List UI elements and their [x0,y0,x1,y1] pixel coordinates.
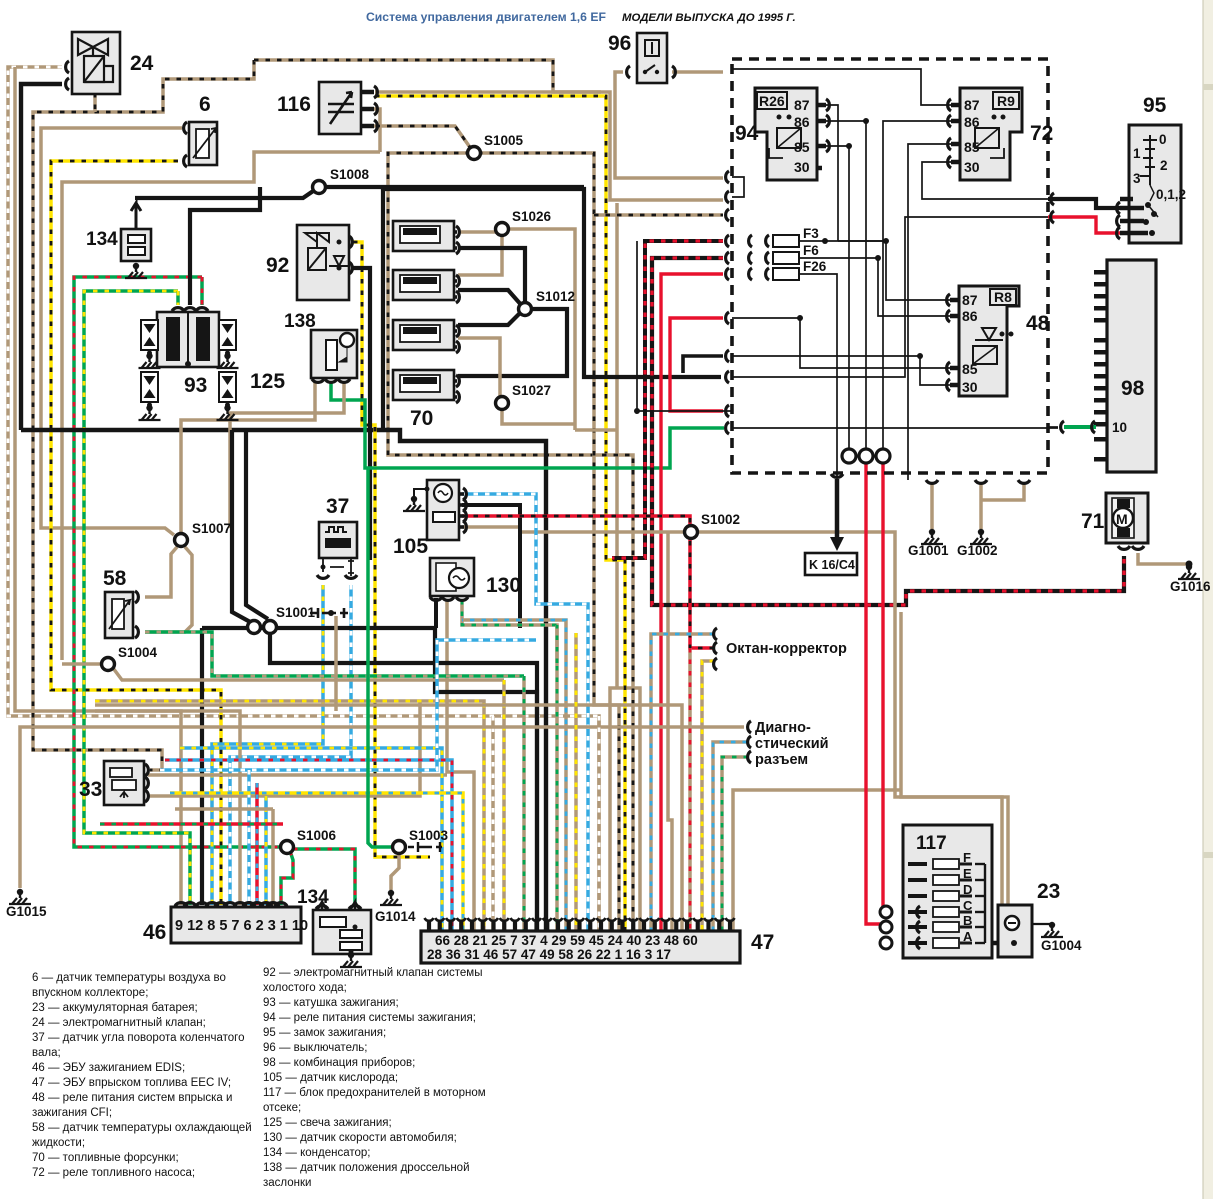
wire black to 46 [200,628,204,905]
svg-text:98: 98 [1121,377,1145,400]
svg-text:разъем: разъем [755,752,808,768]
node S1008 [313,181,326,194]
capacitor 134 bottom [313,910,371,954]
wire black to S1001a [232,430,252,623]
wire black inj2.2 [458,290,523,307]
wire brown 138.3 via x230 [230,382,344,528]
wire thin 48.30 [732,356,951,385]
svg-text:70 — топливные форсунки;: 70 — топливные форсунки; [32,1152,179,1164]
node S1004 [102,658,115,671]
spark plug 125c [141,372,158,402]
wire brown/blue diag2 [713,742,748,931]
svg-text:S1007: S1007 [192,521,231,536]
wire brown G1015 diag row727 [20,727,744,888]
injector 70.1 [393,221,454,251]
wire green branch to S1003 [368,468,392,847]
wire black to S1001b [246,430,268,619]
svg-text:66 28 21 25 7 3: 66 28 21 25 7 37 4 29 59 45 24 40 23 48 … [435,933,698,948]
wire blue/yellow 37.1 [212,585,323,905]
svg-text:87: 87 [794,97,810,113]
wire brown/yellow row701 484 [95,701,484,931]
wire black 117.A-23 [963,941,1012,945]
wire red/green row824 [100,822,283,826]
wire thin 94 loop [732,177,744,197]
wire brown/green 557 [462,600,557,931]
wire thin 94.85 [822,146,849,449]
relay 94 [755,88,817,180]
wire brown inj1 [458,230,496,234]
wire brown/black to pin215 [594,213,723,217]
sensor 33 [104,761,144,805]
wire brown/black 116.3 to S1005 [364,126,474,153]
svg-text:30: 30 [794,159,810,175]
wire black 24.2 down [21,84,62,430]
svg-text:92: 92 [266,254,289,277]
relay 72 [960,88,1022,180]
wire red to 95 [1048,217,1120,233]
svg-text:130: 130 [486,574,521,597]
instrument cluster 98 [1107,260,1156,472]
ground G1016 [1178,564,1200,579]
wire brown 116.2 stub [364,109,380,152]
wire brown/black S1005 down to 47 [478,153,619,931]
svg-text:130 — датчик скорости автомоби: 130 — датчик скорости автомобиля; [263,1132,457,1144]
wire brown/black top right [254,60,601,92]
svg-text:S1001: S1001 [276,605,316,620]
wire black inj1.2 [458,248,525,303]
wire brown/black S1005 row455 to 47 [388,153,633,931]
ground G1001 [921,529,943,544]
wire brown 6.1 to S1007 [41,128,182,535]
svg-text:зажигания CFI;: зажигания CFI; [32,1107,112,1119]
speed sensor 130 [430,558,474,596]
svg-text:86: 86 [962,308,978,324]
wire black main y430-441 to 47 [21,430,546,931]
capacitor 134 top [121,229,151,261]
junction circles [842,449,856,463]
svg-text:92 — электромагнитный клапан с: 92 — электромагнитный клапан системы [263,967,482,979]
svg-text:48 — реле питания систем впрыс: 48 — реле питания систем впрыска и [32,1092,232,1104]
wire brown branch 640 [617,688,640,931]
svg-text:R9: R9 [997,93,1015,109]
svg-text:2: 2 [1160,158,1168,173]
svg-text:138 — датчик положения дроссел: 138 — датчик положения дроссельной [263,1162,470,1174]
crank sensor 37 [319,522,357,558]
svg-text:G1004: G1004 [1041,938,1082,953]
svg-text:Диагно-: Диагно- [755,720,811,736]
svg-text:стический: стический [755,736,829,752]
svg-text:134 — конденсатор;: 134 — конденсатор; [263,1147,370,1159]
wire thin F6-48.86 [791,258,951,316]
svg-text:37 — датчик угла поворота коле: 37 — датчик угла поворота коленчатого [32,1032,244,1044]
wire yellow/black 6.2 to 46 [51,161,221,905]
wire brown to S1004 [62,662,102,666]
wire brown 617 down [615,203,619,688]
scrollbar strip [1203,0,1213,1199]
wire brown 130.2 to 47 [447,600,474,931]
svg-text:95: 95 [1143,94,1167,117]
wire brown G1002b [981,483,1024,500]
svg-text:F26: F26 [803,259,827,274]
svg-text:3: 3 [1133,171,1141,186]
wire thin 428-98.10 [732,427,1058,429]
wire red loop 48 [670,318,723,411]
svg-text:87: 87 [962,292,978,308]
wire brown 33.2 to 130.2 [148,773,447,777]
svg-text:93 — катушка зажигания;: 93 — катушка зажигания; [263,997,399,1009]
svg-text:58 — датчик температуры охлажд: 58 — датчик температуры охлаждающей [32,1122,252,1134]
svg-text:G1016: G1016 [1170,579,1211,594]
46 [171,907,301,943]
svg-text:33: 33 [79,778,102,801]
47 [421,931,740,963]
ground G1004 [1041,922,1063,937]
wire black 92.2 [353,268,370,560]
wire black shield bus [202,628,537,931]
wire thin 72.85-G1001 [908,144,957,480]
wire brown x15 row711 [15,67,181,905]
injector 70.4 [393,370,454,400]
svg-text:M: M [1116,511,1128,527]
wire thin 411 [637,241,732,411]
coil 93 [157,312,219,367]
svg-text:134: 134 [86,229,118,250]
wire brown/white branch 493 [491,716,495,931]
wire brown inj3.2 [458,338,500,397]
injector 70.3 [393,320,454,350]
wire brown/green 524 to 47 [522,676,526,931]
wire S1006 right to 134b [293,849,355,903]
wire thin 94.87 [822,105,838,241]
svg-text:48: 48 [1026,312,1050,335]
svg-text:117: 117 [916,833,947,854]
wire brown 682 row705 [470,705,682,931]
battery 23 [998,905,1032,957]
svg-text:S1006: S1006 [297,828,337,843]
wire brown 58.1 to S1007 [145,547,177,597]
wire brown G1001 [930,483,934,529]
svg-text:впускном коллекторе;: впускном коллекторе; [32,987,148,999]
svg-text:105 — датчик кислорода;: 105 — датчик кислорода; [263,1072,398,1084]
wire brown pair 2 [901,612,1008,905]
svg-text:138: 138 [284,311,316,332]
svg-text:Октан-корректор: Октан-корректор [726,641,847,657]
svg-text:93: 93 [184,374,207,397]
motor 71 [1106,493,1148,543]
wire brown inj supply join [575,428,617,432]
svg-text:23 — аккумуляторная батарея;: 23 — аккумуляторная батарея; [32,1002,198,1014]
wire black injector frame [383,189,721,430]
svg-text:96 — выключатель;: 96 — выключатель; [263,1042,367,1054]
fuse F26 [773,268,799,280]
junction dots [822,238,828,244]
svg-text:98 — комбинация приборов;: 98 — комбинация приборов; [263,1057,415,1069]
wire black/red F3 [612,241,723,558]
wire brown/yellow 576 [574,633,578,931]
wire blue/red row760 452 [165,760,452,931]
wire brown/black 24 bottom stub [93,93,97,112]
wire brown 33.3 [148,700,420,796]
wire thin 94.86 [822,121,866,449]
wire black K16 arrow [835,479,840,545]
wire black 130.1 [434,598,438,628]
wire blue/white to 46 [247,770,251,905]
svg-text:23: 23 [1037,880,1060,903]
svg-text:72 — реле топливного насоса;: 72 — реле топливного насоса; [32,1167,195,1179]
svg-text:46: 46 [143,921,166,944]
svg-text:94 — реле питания системы зажи: 94 — реле питания системы зажигания; [263,1012,476,1024]
svg-text:Система управления двигателем: Система управления двигателем 1,6 EF [366,10,606,24]
svg-text:R8: R8 [994,289,1012,305]
wire red/blue to 46 [255,783,259,905]
svg-text:S1008: S1008 [330,167,370,182]
node S1003 [393,841,406,854]
wire thin 48.85 [732,318,951,368]
wire brown/yellow 504 to 47 [502,680,506,931]
svg-text:58: 58 [103,567,127,590]
wire black S1008 [135,187,584,198]
svg-text:S1026: S1026 [512,209,552,224]
wire brown S1004 row680 [113,668,504,680]
wire brown row711b [95,711,240,905]
capacitor module 116 [319,82,361,134]
svg-text:116: 116 [277,93,311,116]
node S1007 [175,534,188,547]
wire brown/green diag3 [722,757,748,931]
dashed harness box [732,59,1048,473]
wire brown 96 left to pin177 [615,72,723,178]
svg-text:105: 105 [393,535,428,558]
wire brown/red 690 to 47 [688,648,692,931]
svg-text:S1027: S1027 [512,383,551,398]
svg-text:G1001: G1001 [908,543,949,558]
wire black S1001 right [270,632,537,931]
svg-text:жидкости;: жидкости; [32,1137,85,1149]
ground G1002 [970,529,992,544]
wire brown S1007 right leg [145,547,192,632]
svg-text:0: 0 [1159,132,1167,147]
svg-text:S1003: S1003 [409,828,449,843]
svg-text:125 — свеча зажигания;: 125 — свеча зажигания; [263,1117,392,1129]
injector 70.2 [393,270,454,300]
svg-text:37: 37 [326,495,349,518]
svg-text:S1012: S1012 [536,289,575,304]
117 [903,825,992,958]
air temp sensor 6 [189,122,217,165]
wire red to 117.B [866,462,886,924]
wire thin 377-95 [732,217,1048,377]
svg-text:1: 1 [1133,146,1141,161]
svg-text:30: 30 [962,379,978,395]
svg-text:72: 72 [1030,122,1053,145]
ground G1015 [9,889,31,904]
wire green/red to S1006 [74,277,283,847]
node S1012 [519,303,532,316]
svg-text:G1014: G1014 [375,909,416,924]
wire green/red S1006 down [281,851,293,905]
wire brown G1002 [979,483,983,529]
wire brown/blue 566 from 130.3 [462,620,566,931]
wire brown branch 610 [610,688,617,931]
svg-text:S1004: S1004 [118,645,158,660]
wire brown shield drain [334,616,338,711]
wire thin 96-72.87 [732,69,951,105]
svg-text:G1015: G1015 [6,904,47,919]
svg-text:24: 24 [130,52,154,75]
svg-text:холостого хода;: холостого хода; [263,982,347,994]
relay 48 [959,286,1019,396]
wire green/yellow coil [176,291,180,305]
wire brown 138.1 to S1007 [181,382,315,533]
wire green/yellow to 46 [84,291,190,905]
wire thin 72.86 [883,121,957,449]
svg-text:K 16/C4: K 16/C4 [809,558,855,572]
svg-text:30: 30 [964,159,980,175]
fuse F6 [773,252,799,264]
wire black S1012 inj4 [458,309,567,376]
svg-text:F6: F6 [803,243,819,258]
node S1026 [496,223,509,236]
svg-text:24 — электромагнитный клапан;: 24 — электромагнитный клапан; [32,1017,206,1029]
node S1005 [468,147,481,160]
svg-text:87: 87 [964,97,980,113]
wire black/red F6 fuel pump motor [652,258,1124,605]
wire brown/blue octane1 to 47 [651,634,714,931]
svg-text:G1002: G1002 [957,543,998,558]
o2 105 [427,480,459,540]
idle valve 92 [297,225,349,300]
wire red F26 to 47 [661,274,723,931]
spark plug 125d [219,372,236,402]
wire brown 105.4 S1002 battery [462,527,1002,905]
coolant sensor 58 [105,592,133,638]
wire brown 96 to harness [672,70,723,74]
svg-text:47: 47 [751,931,774,954]
solenoid valve 24 [72,32,120,94]
svg-text:28 36 31 46 57: 28 36 31 46 57 47 49 58 26 22 1 16 3 17 [427,947,671,962]
wire blue/white 37.2 [230,585,351,905]
wire black inj3.1 [458,311,522,325]
node S1027 [496,397,509,410]
wire 23-G1004 [1032,923,1052,925]
throttle sensor 138 [311,330,357,378]
wire brown 71-G1016 [1138,553,1189,564]
wire thin F26 down [791,274,837,477]
svg-text:71: 71 [1081,510,1105,533]
svg-text:отсеке;: отсеке; [263,1102,301,1114]
svg-text:117 — блок предохранителей в м: 117 — блок предохранителей в моторном [263,1087,486,1099]
wire green/brown 58.2 row676 [145,632,524,676]
node S1002 [685,526,698,539]
wire red/black 105.3 octane [462,516,714,648]
svg-text:94: 94 [735,122,759,145]
wire thin 72.30-95 [922,162,1048,199]
ground G1014 [380,890,402,905]
svg-text:S1002: S1002 [701,512,740,527]
svg-text:125: 125 [250,370,285,393]
wire brown S1003 to G1014 [391,853,399,890]
svg-text:0,1,2: 0,1,2 [1156,187,1186,202]
fuse F3 [773,235,799,247]
wire brown S1026 out [508,229,575,430]
wire thin F3-48.87 [791,241,951,300]
wire brown row705 [95,703,470,707]
svg-text:47 — ЭБУ впрыском топлива EEC: 47 — ЭБУ впрыском топлива EEC IV; [32,1077,231,1089]
ground 134 [125,263,147,278]
wire red to 117.C [883,462,886,909]
spark plug 125a [141,320,158,350]
wire brown S1027 out [502,409,575,424]
wire brown 47 to battery pair [733,790,901,931]
wire brown 668 branch to 47 [668,532,672,931]
svg-text:6: 6 [199,93,211,116]
wire brown 116.2 to S1004 [62,152,380,660]
svg-text:F3: F3 [803,226,819,241]
svg-text:96: 96 [608,32,631,55]
wire brown S1026 inj2 [458,236,502,275]
ignition switch 95 [1129,125,1181,243]
wire blue/white row770 [160,640,536,770]
wire black to 95 [1048,199,1120,208]
svg-text:заслонки: заслонки [263,1177,311,1189]
wire black 105.2 [462,505,520,628]
wire yellow/black 116.1b down [375,96,625,931]
wire green 138 to 98 pin10 [331,382,724,468]
svg-text:95 — замок зажигания;: 95 — замок зажигания; [263,1027,386,1039]
svg-text:вала;: вала; [32,1047,61,1059]
svg-text:10: 10 [1112,420,1127,435]
wire brown/white 599 branch [597,716,601,931]
switch 96 [637,33,667,83]
svg-text:9 12 8 5 7 6 2 3 1 10: 9 12 8 5 7 6 2 3 1 10 [175,918,308,934]
wire green/red coil [200,277,204,305]
wire brown 116.1 to pin197 [375,92,723,200]
wire yellow/blue row793 463 [170,793,463,931]
wire black pin 356 [683,356,723,373]
wire brown/yellow octane3 to 47 [702,661,714,931]
wire yellow/black 92.1 [353,242,430,857]
svg-text:R26: R26 [759,93,785,109]
svg-text:6 — датчик температуры воздуха: 6 — датчик температуры воздуха во [32,972,226,984]
svg-text:70: 70 [410,407,433,430]
svg-text:МОДЕЛИ ВЫПУСКА ДО 1995 Г.: МОДЕЛИ ВЫПУСКА ДО 1995 Г. [622,12,796,24]
wire black coil to S1008 [190,187,260,305]
wire brown/black 24 to 33 [33,60,254,770]
connector K16/C4 [805,553,857,575]
node S1006 [281,841,294,854]
wire brown row809 [175,807,273,811]
svg-text:46 — ЭБУ зажиганием EDIS;: 46 — ЭБУ зажиганием EDIS; [32,1062,185,1074]
spark plug 125b [219,320,236,350]
wire blue/yellow row748 442 [180,748,442,931]
wire brown/white 24.1 row716 [8,67,599,931]
wire blue/white 105.1 [462,494,588,931]
svg-text:S1005: S1005 [484,133,524,148]
